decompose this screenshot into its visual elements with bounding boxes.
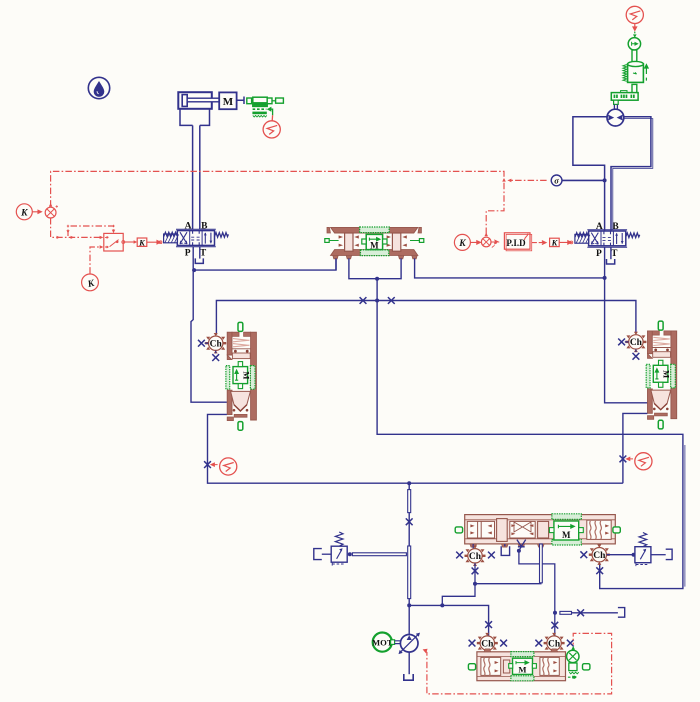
shaft to hydraulic motor (navy)	[614, 105, 617, 110]
check valve Ch1	[205, 333, 226, 353]
wire: transformer inner-left to center junction	[349, 258, 377, 278]
node right P junction	[603, 276, 607, 280]
green M motor	[552, 514, 581, 520]
plug X left of Ch6	[535, 640, 542, 647]
wire: right valve T to tank	[610, 247, 612, 259]
left spring	[164, 232, 177, 236]
transducer signal dashes and arrow	[252, 107, 272, 117]
plug X right of Ch4	[488, 552, 495, 559]
side green ports	[325, 239, 329, 243]
pilot link to Ch	[219, 342, 226, 344]
PID controller	[504, 233, 546, 251]
check valve Ch4	[465, 546, 486, 566]
bottom bar	[331, 250, 418, 256]
check valve (poppet) under block	[517, 540, 526, 547]
wire: right valve P down to junction and right assembly	[605, 247, 648, 403]
svg-text:M: M	[370, 240, 379, 250]
wire: valve P down with jog	[191, 247, 227, 402]
orifice X tank line	[577, 609, 584, 616]
left cell crossed arrows	[180, 232, 187, 244]
throttle X right	[620, 456, 627, 463]
motor M box vertical	[226, 362, 255, 390]
gain K5 box	[550, 238, 573, 248]
speed sensor (green circle)	[628, 38, 640, 50]
svg-text:P: P	[185, 248, 191, 258]
svg-text:B: B	[201, 222, 208, 232]
wire: bus down / cross line to right pipe	[377, 301, 683, 589]
svg-text:MOT: MOT	[372, 638, 393, 648]
plug X left of Ch4	[456, 552, 463, 559]
housing column	[251, 332, 257, 420]
gauge G4	[626, 457, 633, 460]
wire: block port to Ch4	[472, 544, 474, 548]
relief valve RV2	[607, 554, 635, 556]
constant K4 circle	[454, 234, 480, 250]
multiplier junction X1	[45, 205, 58, 218]
wire: transformer outer-right to right P junction	[415, 258, 605, 278]
wire: pipe bottom to junction	[442, 583, 541, 606]
green side ports	[455, 527, 462, 533]
right spring section	[587, 520, 611, 539]
check valve Ch3	[477, 633, 498, 653]
orifice X on bus right	[388, 297, 395, 304]
plug X right of Ch6	[567, 640, 574, 647]
check valve Ch6	[544, 633, 565, 653]
relief valve RV2	[635, 533, 651, 567]
mass M1	[219, 92, 244, 109]
plug X below Ch1	[215, 351, 217, 354]
signal duplicator/switch box	[104, 233, 137, 251]
svg-text:K: K	[20, 208, 28, 218]
tank T2	[607, 259, 615, 264]
wire: motor loop left side down to valve A	[573, 117, 607, 231]
plug X left of Ch3	[469, 640, 476, 647]
shaft coupler	[632, 50, 637, 62]
pump control dash-dot loop	[424, 633, 611, 694]
wire: transformer outer-left leg	[335, 258, 337, 270]
wire: bus to bottom-left Ch column	[409, 605, 488, 636]
throttle X supply	[406, 518, 413, 525]
motor M box	[362, 234, 387, 250]
gauge G1 (position display)	[271, 115, 273, 121]
sum junction X2	[481, 237, 498, 247]
node sigma tap	[603, 178, 607, 182]
gain K3 box	[137, 237, 162, 247]
sigma sensor feedback branch	[511, 179, 547, 181]
small arrows	[339, 235, 407, 246]
svg-text:A: A	[185, 222, 192, 232]
top green strip	[360, 227, 390, 233]
node bus center	[375, 299, 379, 303]
bottom housing with cone	[227, 390, 232, 414]
multiplier output dashes to duplicator	[51, 218, 102, 237]
plug X left of Ch2	[625, 341, 629, 343]
relief valve RV1	[322, 553, 331, 555]
throttle X above Ch3	[485, 621, 492, 628]
tank T6	[666, 549, 672, 559]
check valve Ch2	[625, 332, 646, 352]
tank T4	[404, 674, 413, 680]
node Ch4 branch	[473, 582, 477, 586]
prime mover (green rotary load)	[623, 61, 648, 82]
compensator body	[468, 649, 590, 681]
pipe and orifice to tank T7	[560, 611, 572, 614]
svg-text:M: M	[241, 371, 251, 379]
fluid properties icon	[88, 77, 109, 98]
sigma sensor	[551, 175, 604, 186]
node staircase join	[440, 603, 444, 607]
feet	[333, 255, 417, 258]
plug X left of Ch5	[580, 551, 587, 558]
right piston	[392, 233, 400, 251]
branch to duplicator top	[68, 226, 114, 236]
node bottom bus	[407, 481, 411, 485]
throttle X left	[204, 461, 211, 468]
wire: cylinder port B down to valve	[199, 125, 201, 229]
bottom port tabs	[470, 544, 544, 547]
svg-text:σ: σ	[554, 176, 559, 186]
wire: motor loop right side down to valve B (pipe)	[611, 117, 651, 231]
svg-text:M: M	[518, 665, 526, 675]
gauge G3	[211, 463, 218, 466]
top bar	[331, 227, 418, 233]
hydraulic motor (fixed displacement)	[607, 109, 624, 126]
node center junction	[375, 277, 379, 281]
constant K2 circle (bottom)	[82, 245, 104, 290]
hydraulic cylinder body	[178, 92, 219, 109]
svg-text:P.I.D: P.I.D	[506, 238, 526, 248]
pipe to supply column	[348, 552, 352, 556]
motor MOT	[372, 633, 401, 652]
wire: pump to tank	[408, 652, 410, 674]
long feedback dash-dot line	[51, 171, 504, 236]
top housing	[227, 332, 232, 355]
valve body 3 positions	[177, 231, 214, 246]
node right branch to tank orifice	[553, 611, 557, 615]
wire: upper bus	[216, 301, 636, 335]
right spring section	[540, 657, 559, 675]
node relief pilot	[632, 553, 636, 557]
wire: right assembly outlet down to bottom bus	[623, 413, 648, 483]
pipe port down	[540, 544, 543, 583]
wire: Ch4 down to junction	[474, 563, 476, 584]
green M motor	[511, 652, 534, 657]
displacement transducer (green)	[247, 97, 284, 106]
pipe segment lower	[408, 546, 411, 599]
svg-text:M: M	[562, 530, 571, 540]
throttle X above Ch6	[551, 622, 558, 629]
tank T1	[195, 258, 203, 263]
plug X right of Ch3	[500, 640, 507, 647]
svg-text:M: M	[223, 96, 234, 108]
svg-text:T: T	[200, 248, 207, 258]
node P-left junction	[192, 268, 196, 272]
middle cell closed center	[193, 231, 200, 246]
tank T5 under block	[501, 544, 509, 555]
cylinder mounting block with two ports	[180, 109, 210, 126]
wire: check valve to right branch	[519, 547, 555, 636]
orifice X on bus left	[360, 297, 367, 304]
poppet spring (pink lines)	[233, 339, 249, 347]
node check outlet	[517, 549, 521, 553]
svg-text:K: K	[458, 239, 466, 249]
green ports top/bottom	[238, 322, 243, 331]
variable displacement pump P1	[399, 633, 421, 655]
check valve Ch5	[589, 545, 610, 565]
green side ports	[468, 664, 475, 670]
orifice X right pipe bottom	[596, 567, 603, 574]
tank T3	[314, 549, 322, 560]
plug X left of Ch1	[205, 342, 209, 344]
wire: valve T to tank	[199, 247, 201, 259]
green pump unit	[611, 91, 638, 105]
gauge G2 (speed display)	[626, 6, 643, 23]
constant K1 circle	[16, 204, 41, 220]
wire: P junction to transformer left leg	[193, 258, 336, 271]
plug X below Ch2	[635, 349, 637, 352]
left solenoid hatched box	[164, 234, 178, 243]
wire: left assembly outlet down to bottom bus	[208, 414, 623, 483]
shaft coupler 2	[632, 84, 637, 92]
right cell parallel arrows	[205, 233, 211, 244]
flow sensor (green X circle)	[567, 646, 579, 679]
top port tabs	[484, 649, 558, 652]
bottom green strip	[360, 250, 388, 256]
wire: transformer inner-right to center junction	[377, 258, 401, 278]
right spring	[215, 233, 229, 238]
left piston	[345, 233, 353, 251]
node supply/relief	[407, 603, 411, 607]
pipe segment upper	[408, 490, 411, 513]
wire: supply column	[408, 483, 410, 635]
wire: cylinder port A down to valve	[192, 125, 194, 229]
wire: junction down to bus	[376, 279, 378, 301]
